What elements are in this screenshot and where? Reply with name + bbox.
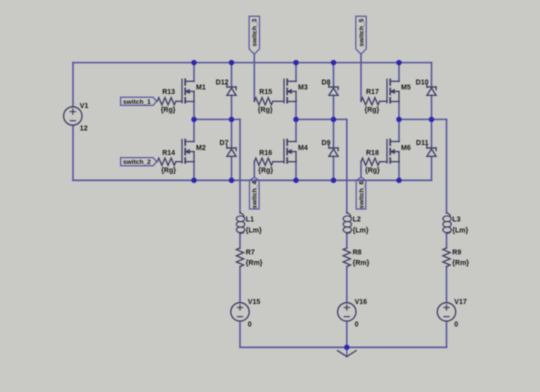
svg-text:R17: R17	[366, 89, 379, 96]
svg-text:0: 0	[355, 321, 359, 328]
svg-text:{Rm}: {Rm}	[452, 260, 469, 267]
svg-text:D8: D8	[322, 79, 331, 86]
svg-text:M1: M1	[196, 85, 206, 92]
svg-text:D7: D7	[220, 140, 229, 147]
svg-text:M4: M4	[298, 145, 308, 152]
svg-text:switch_5: switch_5	[358, 18, 365, 46]
svg-text:V1: V1	[80, 103, 89, 110]
svg-text:R18: R18	[366, 150, 379, 157]
svg-text:V15: V15	[248, 299, 261, 306]
svg-text:D9: D9	[322, 140, 331, 147]
svg-text:{Rg}: {Rg}	[161, 167, 176, 174]
svg-text:{Rg}: {Rg}	[365, 167, 380, 174]
svg-text:M3: M3	[298, 85, 308, 92]
svg-text:{Lm}: {Lm}	[452, 228, 468, 235]
svg-text:R13: R13	[162, 89, 175, 96]
svg-text:{Lm}: {Lm}	[353, 228, 369, 235]
svg-text:switch_4: switch_4	[252, 181, 259, 209]
svg-text:12: 12	[80, 125, 88, 132]
svg-text:{Rm}: {Rm}	[246, 260, 263, 267]
svg-text:R7: R7	[246, 249, 255, 256]
svg-text:R15: R15	[259, 89, 272, 96]
svg-text:D12: D12	[216, 79, 229, 86]
svg-text:R14: R14	[162, 150, 175, 157]
svg-text:{Rg}: {Rg}	[258, 167, 273, 174]
svg-text:D11: D11	[416, 140, 429, 147]
svg-text:{Rg}: {Rg}	[365, 107, 380, 114]
svg-text:V17: V17	[454, 299, 467, 306]
svg-text:L3: L3	[452, 217, 460, 224]
svg-text:switch_6: switch_6	[358, 181, 365, 209]
svg-text:D10: D10	[416, 79, 429, 86]
svg-text:{Rg}: {Rg}	[258, 107, 273, 114]
svg-text:{Lm}: {Lm}	[246, 228, 262, 235]
svg-text:L1: L1	[246, 217, 254, 224]
svg-text:0: 0	[248, 321, 252, 328]
svg-text:R8: R8	[353, 249, 362, 256]
svg-text:switch_2: switch_2	[123, 159, 151, 166]
svg-text:0: 0	[454, 321, 458, 328]
svg-text:R16: R16	[259, 150, 272, 157]
svg-text:{Rg}: {Rg}	[161, 107, 176, 114]
svg-text:{Rm}: {Rm}	[353, 260, 370, 267]
svg-text:M2: M2	[196, 145, 206, 152]
svg-text:M6: M6	[401, 145, 411, 152]
svg-text:L2: L2	[353, 217, 361, 224]
svg-text:V16: V16	[355, 299, 368, 306]
svg-text:M5: M5	[401, 85, 411, 92]
svg-text:switch_3: switch_3	[252, 18, 259, 46]
svg-text:switch_1: switch_1	[123, 99, 151, 106]
svg-text:R9: R9	[452, 249, 461, 256]
